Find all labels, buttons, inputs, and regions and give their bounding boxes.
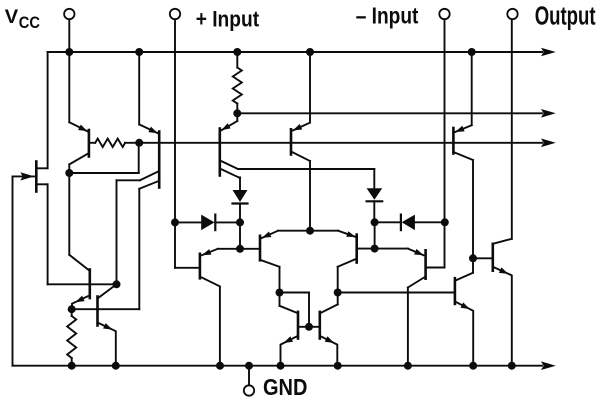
wire Output vertical	[511, 19, 513, 238]
node tail	[306, 227, 314, 235]
node base/collector tie	[65, 139, 143, 177]
transistor Q1 mirror master PNP	[69, 52, 95, 173]
node D1 cathode	[236, 218, 244, 226]
transistor Q10 mirror NPN	[320, 293, 338, 366]
resistor R3 (bias emitter)	[67, 309, 76, 366]
wire tail to Q7 inner	[310, 230, 338, 232]
node GND rail junctions	[68, 362, 516, 370]
node Q6 base	[236, 245, 244, 253]
wire GND bottom rail	[13, 365, 543, 367]
wire bias line 1 (to other comparators)	[237, 112, 542, 114]
wire VCC terminal stem	[68, 19, 70, 52]
diode D1	[233, 190, 248, 222]
arrow bias line 1 continuation	[541, 109, 556, 118]
transistor Q15 output NPN	[473, 239, 512, 366]
node mirror collector left	[276, 289, 284, 297]
terminal + Input	[170, 9, 180, 19]
transistor Q12 bias NPN	[98, 284, 117, 365]
node R1 bottom	[233, 109, 241, 117]
transistor Q6 + input inner PNP	[240, 231, 310, 293]
arrow GND rail continuation	[541, 361, 556, 370]
svg-text:GND: GND	[263, 374, 307, 400]
wire VCC top rail	[48, 51, 542, 53]
svg-text:+ Input: + Input	[196, 6, 260, 31]
terminal - Input	[439, 9, 449, 19]
terminal Output	[507, 9, 517, 19]
svg-text:V: V	[5, 6, 18, 28]
transistor Q3 current source PNP (split collector)	[220, 113, 374, 190]
resistor R1 (from VCC rail)	[233, 52, 242, 113]
wire bias line 2 mirror base line	[125, 142, 542, 144]
terminal VCC	[64, 9, 74, 19]
transistor Q13 output bias PNP	[453, 52, 473, 258]
diode D2	[367, 188, 383, 222]
arrow VCC rail continuation	[541, 48, 556, 57]
node + input clamp	[171, 218, 179, 226]
node Q7 base	[371, 245, 379, 253]
wire clamp node to base node (minus side)	[374, 222, 376, 248]
diode D4	[375, 215, 445, 231]
transistor Q8 - input PNP	[375, 222, 445, 365]
transistor Q11 bias NPN	[48, 255, 117, 309]
node D2 cathode	[371, 218, 379, 226]
transistor Q5 + input PNP	[175, 222, 240, 365]
wire - Input vertical	[444, 19, 446, 222]
wire bias chain	[68, 173, 70, 255]
arrow bias line 2 continuation	[541, 139, 556, 148]
JFET J1	[13, 52, 48, 366]
node output driver base	[469, 254, 477, 262]
resistor R2 (between Q1 base and node)	[95, 139, 125, 147]
transistor Q9 mirror NPN (diode connected)	[280, 293, 299, 366]
node bias nodes	[68, 280, 121, 313]
wire + Input vertical	[174, 19, 176, 222]
transistor Q7 - input inner PNP	[338, 231, 375, 293]
svg-text:CC: CC	[19, 14, 40, 32]
svg-text:Output: Output	[535, 3, 596, 31]
svg-text:– Input: – Input	[356, 3, 419, 29]
diode D3	[175, 215, 240, 231]
terminal GND	[244, 385, 254, 395]
transistor Q14 pulldown NPN	[455, 258, 473, 365]
node - input clamp	[441, 218, 449, 226]
node VCC rail junctions	[65, 48, 475, 56]
transistor Q2 split-collector PNP	[72, 52, 160, 309]
wire Q1 collector to Q2 base	[69, 143, 138, 173]
transistor Q4 current source PNP	[291, 52, 310, 231]
wire clamp node to base node	[239, 222, 241, 248]
wire mirror base tie	[280, 293, 320, 327]
label VCC	[5, 6, 40, 32]
node mirror collector right	[334, 289, 342, 297]
wire GND terminal stem	[248, 366, 250, 385]
wire mirror output to Q14 base	[338, 292, 454, 294]
node mirror base	[305, 323, 313, 331]
